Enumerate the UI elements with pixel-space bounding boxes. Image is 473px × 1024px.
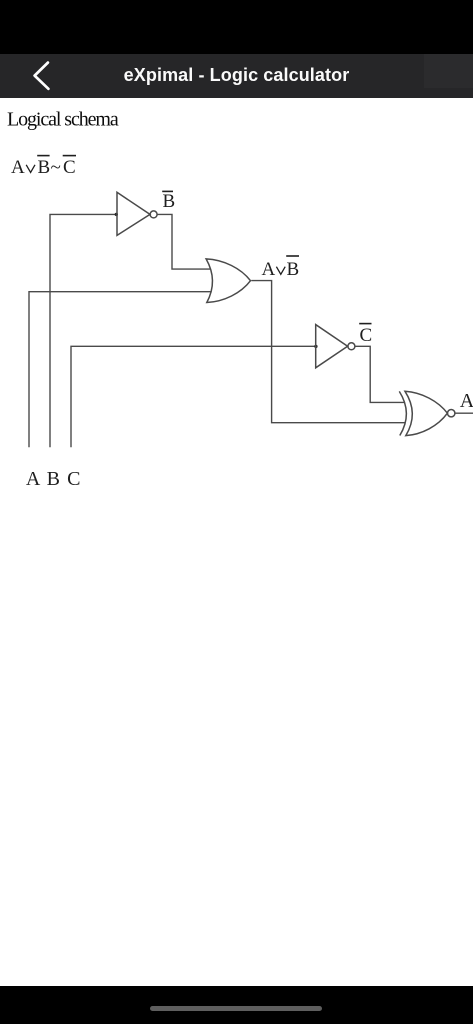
svg-text:A: A bbox=[460, 390, 473, 412]
svg-text:B: B bbox=[38, 157, 51, 178]
svg-text:~: ~ bbox=[51, 157, 61, 178]
svg-text:A: A bbox=[262, 259, 276, 280]
svg-text:C: C bbox=[63, 157, 76, 178]
svg-text:C: C bbox=[360, 325, 373, 346]
svg-text:B: B bbox=[47, 468, 60, 490]
svg-text:B: B bbox=[163, 191, 176, 212]
svg-text:C: C bbox=[67, 468, 80, 490]
svg-text:B: B bbox=[287, 259, 300, 280]
svg-text:A: A bbox=[11, 157, 25, 178]
svg-text:A: A bbox=[26, 468, 41, 490]
svg-text:Logical schema: Logical schema bbox=[7, 108, 119, 130]
